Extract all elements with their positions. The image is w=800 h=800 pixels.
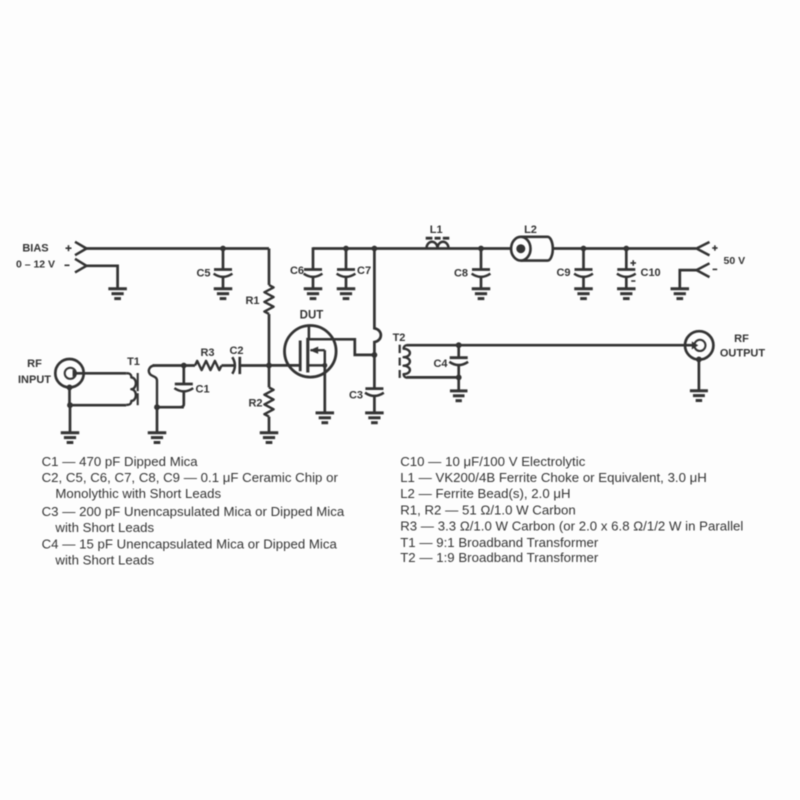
connector P1 BIAS plug bbox=[75, 242, 87, 273]
svg-text:R3 — 3.3 Ω/1.0 W Carbon (or 2.: R3 — 3.3 Ω/1.0 W Carbon (or 2.0 x 6.8 Ω/… bbox=[400, 519, 743, 534]
svg-text:RF: RF bbox=[734, 333, 749, 345]
wire input shield drop bbox=[68, 387, 71, 405]
wire input ground stem bbox=[69, 405, 72, 432]
ground (C5) bbox=[214, 289, 233, 299]
wire 50V return bbox=[680, 270, 697, 288]
ground (DUT source) bbox=[316, 413, 335, 423]
svg-text:C10: C10 bbox=[641, 267, 661, 279]
capacitor C2 bbox=[232, 357, 240, 374]
capacitor C1 bbox=[174, 366, 193, 408]
svg-text:T2: T2 bbox=[393, 332, 406, 344]
svg-text:C10 — 10 μF/100 V Electrolytic: C10 — 10 μF/100 V Electrolytic bbox=[400, 454, 586, 469]
wire T1 secondary to R3 bbox=[153, 364, 196, 367]
node bias-C5 junction bbox=[220, 246, 226, 252]
wire input to T1 primary bbox=[75, 372, 126, 375]
wire R3 to C2 bbox=[222, 364, 236, 367]
wire bias rail bbox=[87, 247, 270, 250]
node C1 junction bbox=[181, 363, 187, 369]
svg-text:C9: C9 bbox=[556, 267, 570, 279]
svg-text:RF: RF bbox=[27, 358, 42, 370]
svg-text:OUTPUT: OUTPUT bbox=[720, 348, 766, 360]
ground (C7) bbox=[337, 289, 356, 299]
wire gate lead bbox=[269, 364, 300, 367]
wire output ground stem bbox=[698, 359, 701, 390]
svg-text:C1: C1 bbox=[196, 384, 210, 396]
wire bias return bbox=[87, 266, 118, 289]
node C10 junction bbox=[623, 246, 629, 252]
svg-text:R3: R3 bbox=[200, 347, 214, 359]
ground (50V return) bbox=[671, 289, 690, 299]
ground (C9) bbox=[574, 289, 593, 299]
transistor DUT (MOSFET) bbox=[285, 326, 338, 378]
label - (bias) bbox=[65, 264, 70, 266]
ground (C6) bbox=[304, 289, 323, 299]
svg-text:Monolythic with Short Leads: Monolythic with Short Leads bbox=[55, 486, 221, 501]
svg-text:C2: C2 bbox=[229, 345, 243, 357]
svg-text:C4: C4 bbox=[433, 358, 448, 370]
capacitor C3 bbox=[365, 355, 384, 413]
svg-text:T1: T1 bbox=[127, 356, 140, 368]
label - (C10 polarity) bbox=[631, 280, 635, 282]
inductor L1 choke bbox=[426, 238, 450, 248]
label + (bias) bbox=[66, 245, 72, 251]
label - (50V) bbox=[713, 268, 718, 270]
ground (C8) bbox=[472, 289, 491, 299]
wire DUT source to ground bbox=[323, 365, 326, 412]
connector J1 RF INPUT bbox=[55, 359, 83, 390]
ground (RF output) bbox=[690, 391, 708, 401]
svg-text:BIAS: BIAS bbox=[22, 243, 48, 255]
transformer T2 secondary winding bbox=[404, 345, 410, 378]
svg-text:50 V: 50 V bbox=[724, 255, 746, 267]
node C9 junction bbox=[581, 246, 587, 252]
wire drain rail bbox=[313, 247, 696, 250]
inductor L2 ferrite bead bbox=[511, 237, 553, 261]
ground (RF input) bbox=[61, 433, 80, 443]
resistor R2 bbox=[264, 365, 273, 432]
label + (C10 polarity) bbox=[630, 260, 636, 266]
wire rail to drain node with T2 primary loop bbox=[374, 249, 380, 355]
connector J2 RF OUTPUT bbox=[685, 331, 713, 362]
svg-text:L2: L2 bbox=[524, 224, 537, 236]
svg-text:C8: C8 bbox=[454, 268, 468, 280]
ground (R2) bbox=[260, 433, 279, 443]
wire drain to T2 node bbox=[337, 339, 374, 355]
node C4 bottom junction bbox=[456, 375, 462, 381]
svg-text:L1: L1 bbox=[430, 224, 443, 236]
ground (C4) bbox=[450, 391, 468, 401]
svg-text:C4 — 15 pF Unencapsulated Mica: C4 — 15 pF Unencapsulated Mica or Dipped… bbox=[42, 536, 338, 551]
svg-text:R1: R1 bbox=[245, 295, 259, 307]
capacitor C6 bbox=[304, 247, 323, 288]
node C7 junction bbox=[343, 246, 349, 252]
ground (T1) bbox=[148, 433, 167, 443]
transformer T1 core bbox=[137, 373, 139, 405]
wire T2 bottom to C4 bbox=[407, 376, 459, 379]
capacitor C7 bbox=[337, 249, 356, 289]
transformer T1 secondary winding bbox=[149, 366, 157, 408]
node C8 junction bbox=[478, 246, 484, 252]
capacitor C8 bbox=[472, 249, 491, 289]
transformer T1 primary winding bbox=[126, 373, 136, 404]
node T1 secondary bottom junction bbox=[154, 404, 160, 410]
svg-text:C6: C6 bbox=[290, 265, 304, 277]
svg-text:with Short Leads: with Short Leads bbox=[54, 553, 154, 568]
svg-text:with Short Leads: with Short Leads bbox=[54, 520, 154, 535]
wire C2 to gate node bbox=[240, 364, 269, 367]
wire T2 top to RF output bbox=[407, 344, 693, 347]
ground (C10) bbox=[617, 289, 636, 299]
svg-text:T1 — 9:1 Broadband Transformer: T1 — 9:1 Broadband Transformer bbox=[400, 535, 599, 550]
capacitor C5 bbox=[214, 249, 233, 289]
svg-text:R1, R2 — 51 Ω/1.0 W Carbon: R1, R2 — 51 Ω/1.0 W Carbon bbox=[400, 502, 576, 517]
capacitor C10 electrolytic bbox=[617, 249, 636, 289]
parts list left column bbox=[42, 454, 345, 568]
node drain-drop junction bbox=[372, 246, 378, 252]
capacitor C9 bbox=[574, 249, 593, 289]
svg-text:L1 — VK200/4B Ferrite Choke or: L1 — VK200/4B Ferrite Choke or Equivalen… bbox=[400, 470, 707, 485]
wire shield to T1 primary bottom bbox=[70, 404, 126, 407]
node input shield junction bbox=[67, 402, 73, 408]
svg-text:C3: C3 bbox=[349, 390, 363, 402]
svg-text:T2 — 1:9 Broadband Transformer: T2 — 1:9 Broadband Transformer bbox=[400, 550, 599, 565]
wire T1 bottom to C1 bottom bbox=[157, 406, 184, 409]
transformer T2 core bbox=[399, 345, 401, 378]
resistor R3 bbox=[195, 361, 222, 370]
wire C4 ground stem bbox=[457, 377, 460, 390]
node C4 top junction bbox=[456, 342, 462, 348]
svg-text:C2, C5, C6, C7, C8, C9 — 0.1 μ: C2, C5, C6, C7, C8, C9 — 0.1 μF Ceramic … bbox=[42, 470, 339, 485]
svg-text:C3 — 200 pF Unencapsulated Mic: C3 — 200 pF Unencapsulated Mica or Dippe… bbox=[42, 504, 345, 519]
capacitor C4 bbox=[449, 345, 468, 377]
svg-text:C1 — 470 pF Dipped Mica: C1 — 470 pF Dipped Mica bbox=[42, 454, 199, 469]
label + (50V) bbox=[712, 245, 717, 250]
svg-text:0 – 12 V: 0 – 12 V bbox=[16, 259, 55, 271]
svg-text:L2 — Ferrite Bead(s), 2.0 μH: L2 — Ferrite Bead(s), 2.0 μH bbox=[400, 486, 570, 501]
svg-text:C7: C7 bbox=[357, 265, 371, 277]
ground (bias return) bbox=[108, 289, 127, 299]
connector P2 50V plug bbox=[697, 242, 710, 277]
svg-text:INPUT: INPUT bbox=[18, 374, 51, 386]
wire T1 ground stem bbox=[156, 407, 159, 432]
svg-text:R2: R2 bbox=[248, 398, 262, 410]
parts list right column bbox=[400, 454, 743, 565]
node drain junction bbox=[372, 352, 378, 358]
ground (C3) bbox=[365, 413, 384, 423]
resistor R1 bbox=[264, 249, 273, 366]
node gate junction bbox=[266, 363, 272, 369]
svg-text:C5: C5 bbox=[196, 268, 210, 280]
svg-text:DUT: DUT bbox=[300, 310, 324, 322]
